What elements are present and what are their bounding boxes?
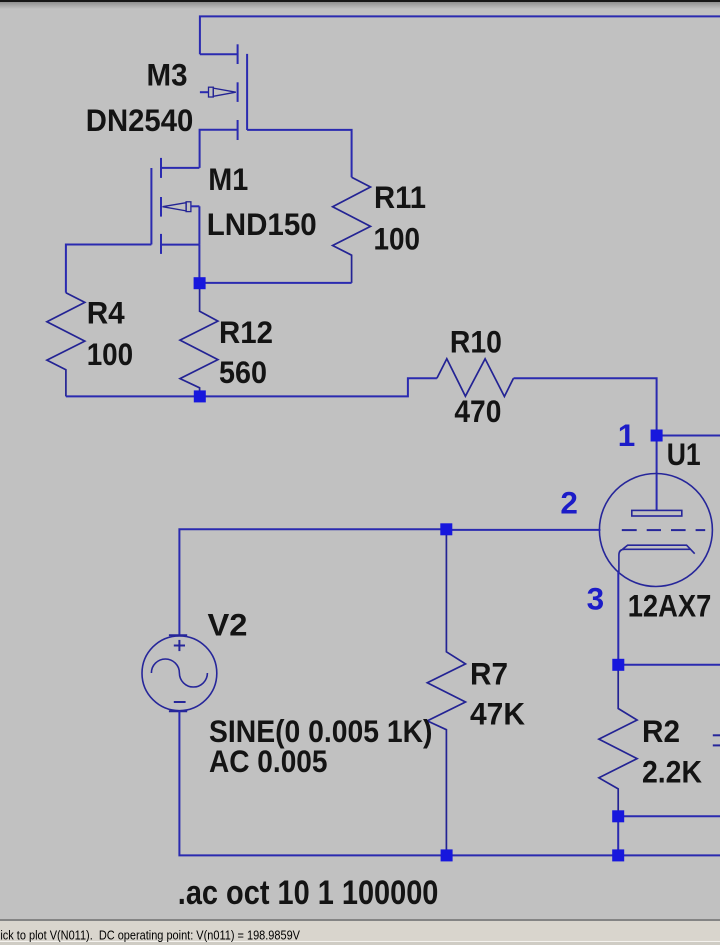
svg-text:12AX7: 12AX7 [628,588,712,624]
wire R2 bottom to right edge [618,815,720,817]
resistor R4 [47,293,85,397]
node 2 junction [440,523,452,535]
svg-text:1: 1 [618,417,636,453]
wire M1 gate to R4 [66,245,151,293]
wire bottom-left rail to R10 [66,378,437,396]
resistor R11 [333,177,371,283]
wire R10 right to node 1 [514,378,657,435]
wire top rail B+ [200,16,720,54]
U1 plate bar [632,510,682,516]
node R12/R4/R10 rail [194,390,206,402]
wire R11 bottom to node [200,282,352,284]
U1 cathode [619,545,695,572]
V2 plus [174,645,185,647]
pin numbers [560,417,635,617]
M1 channel dashes [160,158,162,178]
M3 drain lead [200,53,238,55]
svg-text:560: 560 [219,354,267,390]
svg-text:47K: 47K [470,695,525,731]
svg-text:R12: R12 [219,314,273,350]
svg-text:M3: M3 [147,57,188,93]
wire M1 source down to node [198,245,200,284]
svg-text:AC 0.005: AC 0.005 [209,743,328,779]
svg-text:3: 3 [587,581,605,617]
wire plate lead [656,436,658,511]
svg-text:U1: U1 [667,436,701,472]
svg-text:M1: M1 [208,161,248,197]
node 3 junction [612,659,624,671]
svg-text:R2: R2 [642,713,680,749]
battery symbol at right edge [713,735,720,745]
transistor M3 [200,44,248,168]
V2 pin tick bottom [169,710,187,712]
resistor R2 [599,665,637,817]
M3 channel dashes [237,44,239,64]
svg-text:470: 470 [454,393,501,429]
resistor R7 [427,529,465,855]
M1 bulk arrow [163,202,191,212]
V2 minus [174,701,186,703]
M1 gate bar [150,168,152,245]
U1 envelope circle [599,474,712,587]
svg-text:.ac oct 10 1 100000: .ac oct 10 1 100000 [178,874,439,912]
voltage source V2 [142,635,217,711]
junction nodes [194,277,663,861]
svg-text:R11: R11 [374,179,426,215]
svg-text:100: 100 [374,221,421,257]
wire node 1 to right edge [657,435,720,437]
svg-text:V2: V2 [208,607,248,643]
wire node 3 to right edge [618,664,720,666]
node M1-source/R12/R11 [194,277,206,289]
wire grid lead node 2 [446,529,600,531]
tube U1 triode [599,474,712,587]
wire M3 gate to R11 [247,130,352,177]
M3 gate bar [246,54,248,130]
wire V2 bottom rail [179,711,720,856]
svg-text:Click to plot V(N011). DC ope: Click to plot V(N011). DC operating poin… [0,928,300,943]
M3 bulk arrow [209,87,236,97]
svg-text:DN2540: DN2540 [86,102,194,138]
M3 source lead [200,130,238,168]
V2 circle [142,636,217,711]
wire cathode to node 3 [617,572,619,665]
node rail right junction [612,849,624,861]
V2 sine [151,659,207,687]
svg-text:R7: R7 [470,655,508,691]
svg-text:2: 2 [560,484,578,520]
M1 drain lead [161,167,199,169]
resistor R12 [180,283,218,396]
top window edge [0,0,720,2]
wire R2 bottom to rail [617,816,619,855]
node R2-bottom junction [612,810,624,822]
node R7-bottom rail junction [441,849,453,861]
M1 source lead [161,244,199,246]
wire node 2 to V2 [179,529,446,636]
svg-text:100: 100 [87,336,134,372]
resistor R10 [437,359,514,397]
status bar text [0,920,720,945]
svg-text:R4: R4 [87,295,125,331]
transistor M1 [151,158,199,254]
status bar [0,919,720,921]
V2 pin tick top [169,634,187,636]
U1 grid dashes [622,529,705,531]
svg-text:R10: R10 [450,324,502,360]
svg-text:LND150: LND150 [207,206,317,242]
node 1 junction [651,430,663,442]
svg-text:2.2K: 2.2K [642,753,702,789]
